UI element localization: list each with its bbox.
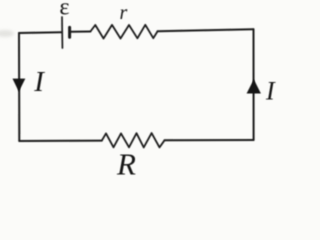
current arrowhead I right (pointing up) (247, 79, 261, 93)
current arrowhead I left (pointing down) (13, 79, 26, 92)
wire resistor r to top-right corner (158, 29, 254, 31)
resistor r zigzag (90, 25, 157, 39)
svg-text:I: I (33, 66, 45, 98)
resistor R zigzag (102, 133, 165, 147)
svg-text:ε: ε (59, 0, 69, 20)
wire bottom-right segment (165, 139, 254, 141)
wire battery to resistor r (70, 31, 91, 33)
battery cell ε : short thick plate (68, 27, 71, 37)
wire bottom-left segment (19, 140, 102, 142)
svg-text:r: r (120, 2, 128, 24)
wire left vertical (18, 33, 20, 141)
battery cell ε : long plate (61, 17, 63, 48)
svg-text:R: R (116, 147, 136, 182)
scan smudge artifact (0, 30, 14, 37)
wire top-left segment (19, 31, 62, 34)
wire right vertical (253, 29, 255, 140)
svg-text:I: I (265, 76, 276, 105)
